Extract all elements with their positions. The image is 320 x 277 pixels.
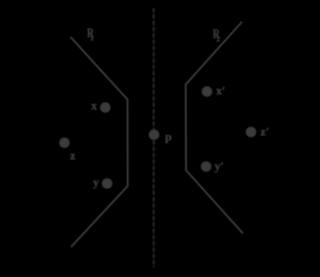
svg-text:x: x — [91, 99, 97, 113]
svg-text:y′: y′ — [215, 159, 224, 173]
svg-text:y: y — [93, 175, 99, 189]
svg-text:1: 1 — [90, 33, 94, 42]
svg-text:p: p — [165, 130, 172, 144]
svg-text:2: 2 — [216, 34, 220, 43]
svg-text:x′: x′ — [216, 84, 225, 98]
svg-text:z′: z′ — [261, 125, 270, 139]
svg-text:z: z — [70, 149, 76, 163]
